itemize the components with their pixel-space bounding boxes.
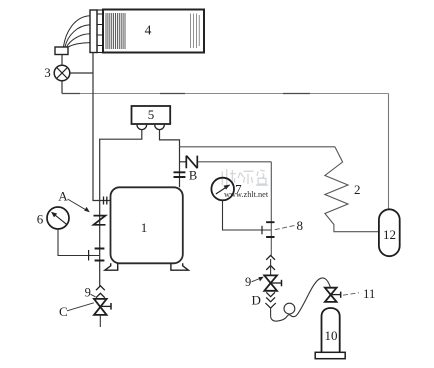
svg-text:5: 5 — [148, 107, 155, 122]
svg-text:11: 11 — [363, 287, 375, 301]
svg-text:9: 9 — [245, 275, 251, 289]
svg-text:D: D — [252, 293, 261, 308]
svg-text:1: 1 — [141, 220, 148, 235]
svg-text:10: 10 — [325, 328, 338, 343]
svg-text:12: 12 — [383, 227, 396, 242]
svg-text:4: 4 — [145, 23, 152, 38]
svg-text:6: 6 — [37, 212, 44, 227]
svg-text:2: 2 — [354, 182, 361, 197]
svg-text:9: 9 — [85, 286, 91, 300]
svg-text:7: 7 — [235, 182, 242, 197]
svg-text:B: B — [189, 169, 197, 183]
svg-text:3: 3 — [44, 65, 51, 80]
svg-text:A: A — [58, 189, 68, 204]
svg-text:8: 8 — [297, 218, 304, 233]
svg-text:C: C — [59, 304, 68, 319]
